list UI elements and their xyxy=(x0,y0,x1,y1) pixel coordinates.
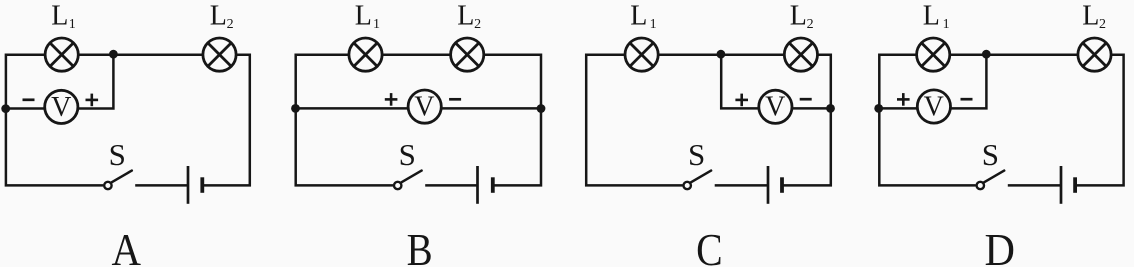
switch S (circuit A) xyxy=(104,171,132,190)
svg-text:2: 2 xyxy=(1099,17,1106,32)
svg-text:1: 1 xyxy=(373,17,380,32)
wire: circuit C voltmeter branch (node down, right to right wire) xyxy=(721,54,831,109)
svg-text:B: B xyxy=(407,224,433,267)
battery (circuit A): short plate xyxy=(200,177,204,193)
node: junction dot top (circuit C) xyxy=(717,50,726,59)
svg-text:1: 1 xyxy=(69,17,76,32)
svg-text:S: S xyxy=(688,137,705,172)
lamp L2 (circuit D) xyxy=(1078,38,1111,71)
label: plus sign (circuit C) xyxy=(735,94,748,107)
svg-text:2: 2 xyxy=(474,17,481,32)
lamp L2 (circuit A) xyxy=(203,38,236,71)
node: junction dot top (circuit A) xyxy=(109,50,118,59)
battery (circuit C): long plate xyxy=(767,166,770,204)
switch S (circuit D) xyxy=(977,171,1005,190)
label L2 text (circuit C) xyxy=(790,1,814,33)
label: plus sign (circuit B) xyxy=(385,93,398,106)
wire: circuit B outer loop xyxy=(296,55,541,186)
wire: circuit C outer loop xyxy=(586,55,831,186)
wire: circuit C bottom segment switch-to-battery xyxy=(715,184,768,187)
label: minus sign (circuit B) xyxy=(449,98,461,101)
label: plus sign (circuit A) xyxy=(86,94,99,107)
node: junction dot right (circuit C) xyxy=(826,104,835,113)
switch S (circuit C) xyxy=(684,171,712,190)
lamp L2 (circuit C) xyxy=(784,38,817,71)
node: junction dot left (circuit B) xyxy=(291,104,300,113)
label L1 text (circuit D) xyxy=(923,1,950,33)
label L1 text (circuit C) xyxy=(630,1,656,33)
battery (circuit D): long plate xyxy=(1060,166,1063,204)
svg-text:C: C xyxy=(696,224,723,267)
svg-text:D: D xyxy=(985,224,1016,267)
svg-text:L: L xyxy=(1082,1,1099,32)
voltmeter U1 (circuit C) xyxy=(759,90,792,123)
battery (circuit B): long plate xyxy=(476,166,479,204)
wire: circuit B voltmeter middle wire xyxy=(296,107,541,110)
label L1 text (circuit A) xyxy=(51,1,75,33)
svg-text:L: L xyxy=(790,1,807,32)
svg-text:A: A xyxy=(112,224,142,267)
wire: circuit A bottom segment switch-to-battery xyxy=(135,184,188,187)
svg-text:S: S xyxy=(109,137,126,172)
svg-text:L: L xyxy=(630,1,647,32)
svg-text:L: L xyxy=(355,1,372,32)
battery (circuit A): long plate xyxy=(187,166,190,204)
battery (circuit C): short plate xyxy=(780,177,784,193)
label: minus sign (circuit A) xyxy=(23,98,35,101)
label L2 text (circuit D) xyxy=(1082,1,1106,33)
svg-text:L: L xyxy=(457,1,474,32)
battery (circuit B): short plate xyxy=(491,177,495,193)
node: junction dot left (circuit A) xyxy=(1,104,10,113)
svg-text:2: 2 xyxy=(807,17,814,32)
voltmeter U1 (circuit B) xyxy=(408,90,441,123)
battery (circuit D): short plate xyxy=(1073,177,1077,193)
svg-text:1: 1 xyxy=(943,17,950,32)
svg-text:V: V xyxy=(924,92,944,123)
lamp L2 (circuit B) xyxy=(451,38,484,71)
svg-text:V: V xyxy=(765,92,785,123)
svg-text:L: L xyxy=(51,1,68,32)
switch S (circuit B) xyxy=(394,171,422,190)
node: junction dot left (circuit D) xyxy=(874,104,883,113)
wire: circuit B bottom segment switch-to-battery xyxy=(425,184,477,187)
node: junction dot right (circuit B) xyxy=(537,104,546,113)
svg-text:S: S xyxy=(399,137,416,172)
voltmeter U1 (circuit D) xyxy=(917,90,950,123)
svg-text:V: V xyxy=(414,92,434,123)
wire: circuit D bottom segment switch-to-battery xyxy=(1008,184,1061,187)
lamp L1 (circuit C) xyxy=(625,38,658,71)
label: minus sign (circuit C) xyxy=(800,98,812,101)
svg-text:L: L xyxy=(210,1,227,32)
lamp L1 (circuit D) xyxy=(917,38,950,71)
label L2 text (circuit B) xyxy=(457,1,481,33)
svg-text:L: L xyxy=(923,1,940,32)
svg-text:S: S xyxy=(982,137,999,172)
wire: circuit D voltmeter branch (left wire to V to node) xyxy=(879,54,986,109)
lamp L1 (circuit A) xyxy=(45,38,78,71)
label: minus sign (circuit D) xyxy=(961,98,973,101)
wire: circuit A voltmeter branch (node to V to left wire) xyxy=(6,54,114,109)
node: junction dot top (circuit D) xyxy=(982,50,991,59)
svg-text:V: V xyxy=(51,92,71,123)
label L1 text (circuit B) xyxy=(355,1,380,33)
label L2 text (circuit A) xyxy=(210,1,234,33)
wire: circuit D outer loop xyxy=(879,55,1123,186)
svg-text:1: 1 xyxy=(650,17,657,32)
voltmeter U1 (circuit A) xyxy=(45,90,78,123)
svg-text:2: 2 xyxy=(227,17,234,32)
wire: circuit A outer loop (left, top, right, bottom segments) xyxy=(6,55,250,186)
label: plus sign (circuit D) xyxy=(897,93,910,106)
lamp L1 (circuit B) xyxy=(349,38,382,71)
